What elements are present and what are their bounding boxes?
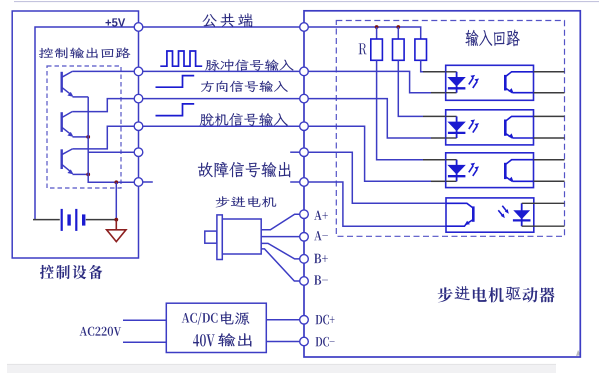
label AC220V xyxy=(80,327,122,336)
junction battery-ground xyxy=(114,218,118,222)
label 输入回路 xyxy=(465,30,519,47)
transistor Q1 xyxy=(61,72,63,93)
wire PUL row xyxy=(143,70,300,72)
U4 light arrows xyxy=(502,206,506,211)
label 方向信号输入 xyxy=(201,81,288,93)
junction ground branch xyxy=(114,180,118,184)
optocoupler U1 xyxy=(446,65,534,100)
wire R1 to opto U3 anode xyxy=(377,60,423,159)
U3 LED xyxy=(446,159,457,161)
optocoupler U3 xyxy=(446,153,534,188)
ground symbol xyxy=(115,220,117,230)
wire Q1 emitter xyxy=(73,96,89,98)
label 控制设备 xyxy=(40,265,103,279)
wire Q2 emitter to emitter bus xyxy=(73,136,89,138)
U2 LED xyxy=(446,115,457,117)
label 公共端 xyxy=(203,13,253,27)
wire +5V common to resistors xyxy=(308,27,420,39)
U1 LED xyxy=(446,71,457,73)
junction R2 top xyxy=(396,25,400,29)
wire R2 to opto U2 anode xyxy=(398,60,423,116)
label AC/DC电源 xyxy=(182,312,218,324)
AC input wire N xyxy=(123,341,166,343)
U3 light arrows xyxy=(469,166,473,173)
wire PUL terminal to opto U1 cathode xyxy=(308,71,431,92)
motor cable B- xyxy=(261,249,300,281)
label 控制输出回路 xyxy=(39,47,131,58)
wire Q2 collector to DIR terminal xyxy=(72,99,134,112)
dashed box: control output circuit xyxy=(47,66,121,188)
terminal circles driver side xyxy=(300,23,309,32)
wire common rail to driver (公共端) xyxy=(143,26,300,28)
stub right of fault-B control side xyxy=(143,181,153,183)
step waveform icon ENA xyxy=(156,104,195,116)
U1 light arrows xyxy=(469,78,473,85)
motor cable A- xyxy=(261,236,300,238)
resistor R3 xyxy=(415,39,427,60)
label B- xyxy=(314,275,328,284)
optocoupler U2 xyxy=(446,110,534,145)
wire fault-B terminal to opto U4 xyxy=(308,182,446,226)
battery BT1 xyxy=(33,219,60,221)
U3 output leads xyxy=(534,159,565,161)
label 脱机信号输入 xyxy=(200,113,288,126)
emitter bus wire xyxy=(88,97,134,182)
label A+ xyxy=(314,211,328,220)
stub right of fault-A terminal driver side xyxy=(290,151,300,153)
resistor R1 xyxy=(376,27,378,39)
motor cable B+ xyxy=(261,243,300,259)
stub left of fault-B driver side xyxy=(290,181,300,183)
wire fault return into control box xyxy=(88,151,134,153)
label 步进电机 xyxy=(216,196,277,207)
wire R3 to opto U1 anode xyxy=(421,60,423,72)
label 故障信号输出 xyxy=(198,162,290,178)
optocoupler U4 xyxy=(446,198,534,232)
U4 output leads xyxy=(522,202,565,204)
AC/DC power supply box xyxy=(166,303,266,352)
pulse waveform icon xyxy=(160,51,202,66)
wire ENA row xyxy=(143,125,300,127)
label A- xyxy=(314,231,328,240)
wire DC+ to driver xyxy=(266,319,299,321)
label +5V xyxy=(106,18,126,26)
control device box (控制设备) xyxy=(12,11,138,258)
U1 phototransistor xyxy=(504,75,507,91)
junction Q2 emitter xyxy=(86,135,90,139)
wire DIR row xyxy=(143,98,300,100)
U2 output leads xyxy=(534,115,565,117)
U4 phototransistor xyxy=(472,206,475,221)
U4 LED xyxy=(521,203,523,226)
motor cable A+ xyxy=(261,214,300,230)
wire fault-A terminal to opto U4 xyxy=(308,152,446,203)
+5V supply rail wire xyxy=(35,27,134,220)
U2 light arrows xyxy=(469,122,473,129)
junction Q3 emitter xyxy=(86,173,90,177)
stepper driver box (步进电机驱动器) xyxy=(304,11,580,357)
step waveform icon DIR xyxy=(156,76,195,88)
label B+ xyxy=(314,254,328,263)
AC input wire L xyxy=(123,319,166,321)
wire ground branch down xyxy=(115,182,117,219)
wire Q1 collector to PUL terminal xyxy=(72,70,134,72)
label 脉冲信号输入 xyxy=(205,59,293,71)
U1 output leads xyxy=(534,71,565,73)
transistor Q2 xyxy=(61,112,63,132)
dashed box: input circuit 输入回路 xyxy=(336,21,564,237)
stepper motor M1 xyxy=(205,231,217,243)
label 40V输出 xyxy=(193,334,215,346)
label DC+ xyxy=(316,315,335,325)
label DC- xyxy=(316,337,335,347)
U3 phototransistor xyxy=(504,163,507,179)
wire Q3 collector to ENA terminal xyxy=(72,126,134,149)
label 步进电机驱动器 xyxy=(438,286,555,302)
U2 phototransistor xyxy=(504,120,507,136)
wire DC- to driver xyxy=(266,341,299,343)
transistor Q3 xyxy=(61,149,63,169)
wire Q3 emitter to emitter bus xyxy=(73,173,89,175)
label R xyxy=(359,43,367,54)
wire ENA terminal to opto U3 cathode xyxy=(308,126,431,181)
wire DIR terminal to opto U2 cathode xyxy=(308,99,431,138)
resistor R2 xyxy=(397,27,399,39)
junction R1 top xyxy=(375,25,379,29)
terminal circles control side xyxy=(134,23,143,32)
